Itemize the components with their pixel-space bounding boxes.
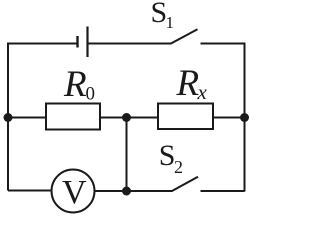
svg-text:2: 2 — [174, 157, 183, 177]
battery cell — [78, 27, 88, 58]
switch S1 blade — [171, 29, 198, 44]
resistor Rx box — [158, 104, 213, 130]
switch S2 blade — [172, 177, 199, 192]
wire: left rail — [7, 44, 9, 191]
wire: voltmeter to bottom node — [95, 190, 127, 192]
wire: bottom node to switch S2 — [127, 190, 173, 192]
svg-text:V: V — [62, 174, 87, 211]
svg-text:x: x — [197, 80, 208, 104]
node: bottom junction — [122, 187, 131, 196]
wire: left rail to R0 — [8, 117, 46, 119]
wire: battery to switch S1 — [89, 43, 172, 45]
voltmeter V circle — [52, 170, 95, 213]
node: right junction — [240, 113, 249, 122]
wire: S2 to bottom-right corner — [201, 190, 245, 192]
wire: R0 to middle node — [100, 117, 158, 119]
svg-text:S: S — [159, 139, 176, 172]
node: left junction — [4, 113, 13, 122]
svg-text:R: R — [63, 64, 87, 105]
resistor R0 box — [46, 104, 100, 130]
node: middle junction — [122, 113, 131, 122]
wire: right rail — [244, 43, 246, 192]
svg-text:0: 0 — [86, 84, 96, 105]
wire: Rx to right rail — [213, 117, 245, 119]
wire: S1 to top-right corner — [201, 43, 245, 45]
wire: bottom-left segment to voltmeter — [8, 190, 52, 192]
svg-text:1: 1 — [166, 13, 175, 32]
wire: top-left segment — [7, 43, 77, 45]
wire: middle node down to bottom branch — [126, 118, 128, 192]
svg-text:R: R — [176, 63, 200, 104]
